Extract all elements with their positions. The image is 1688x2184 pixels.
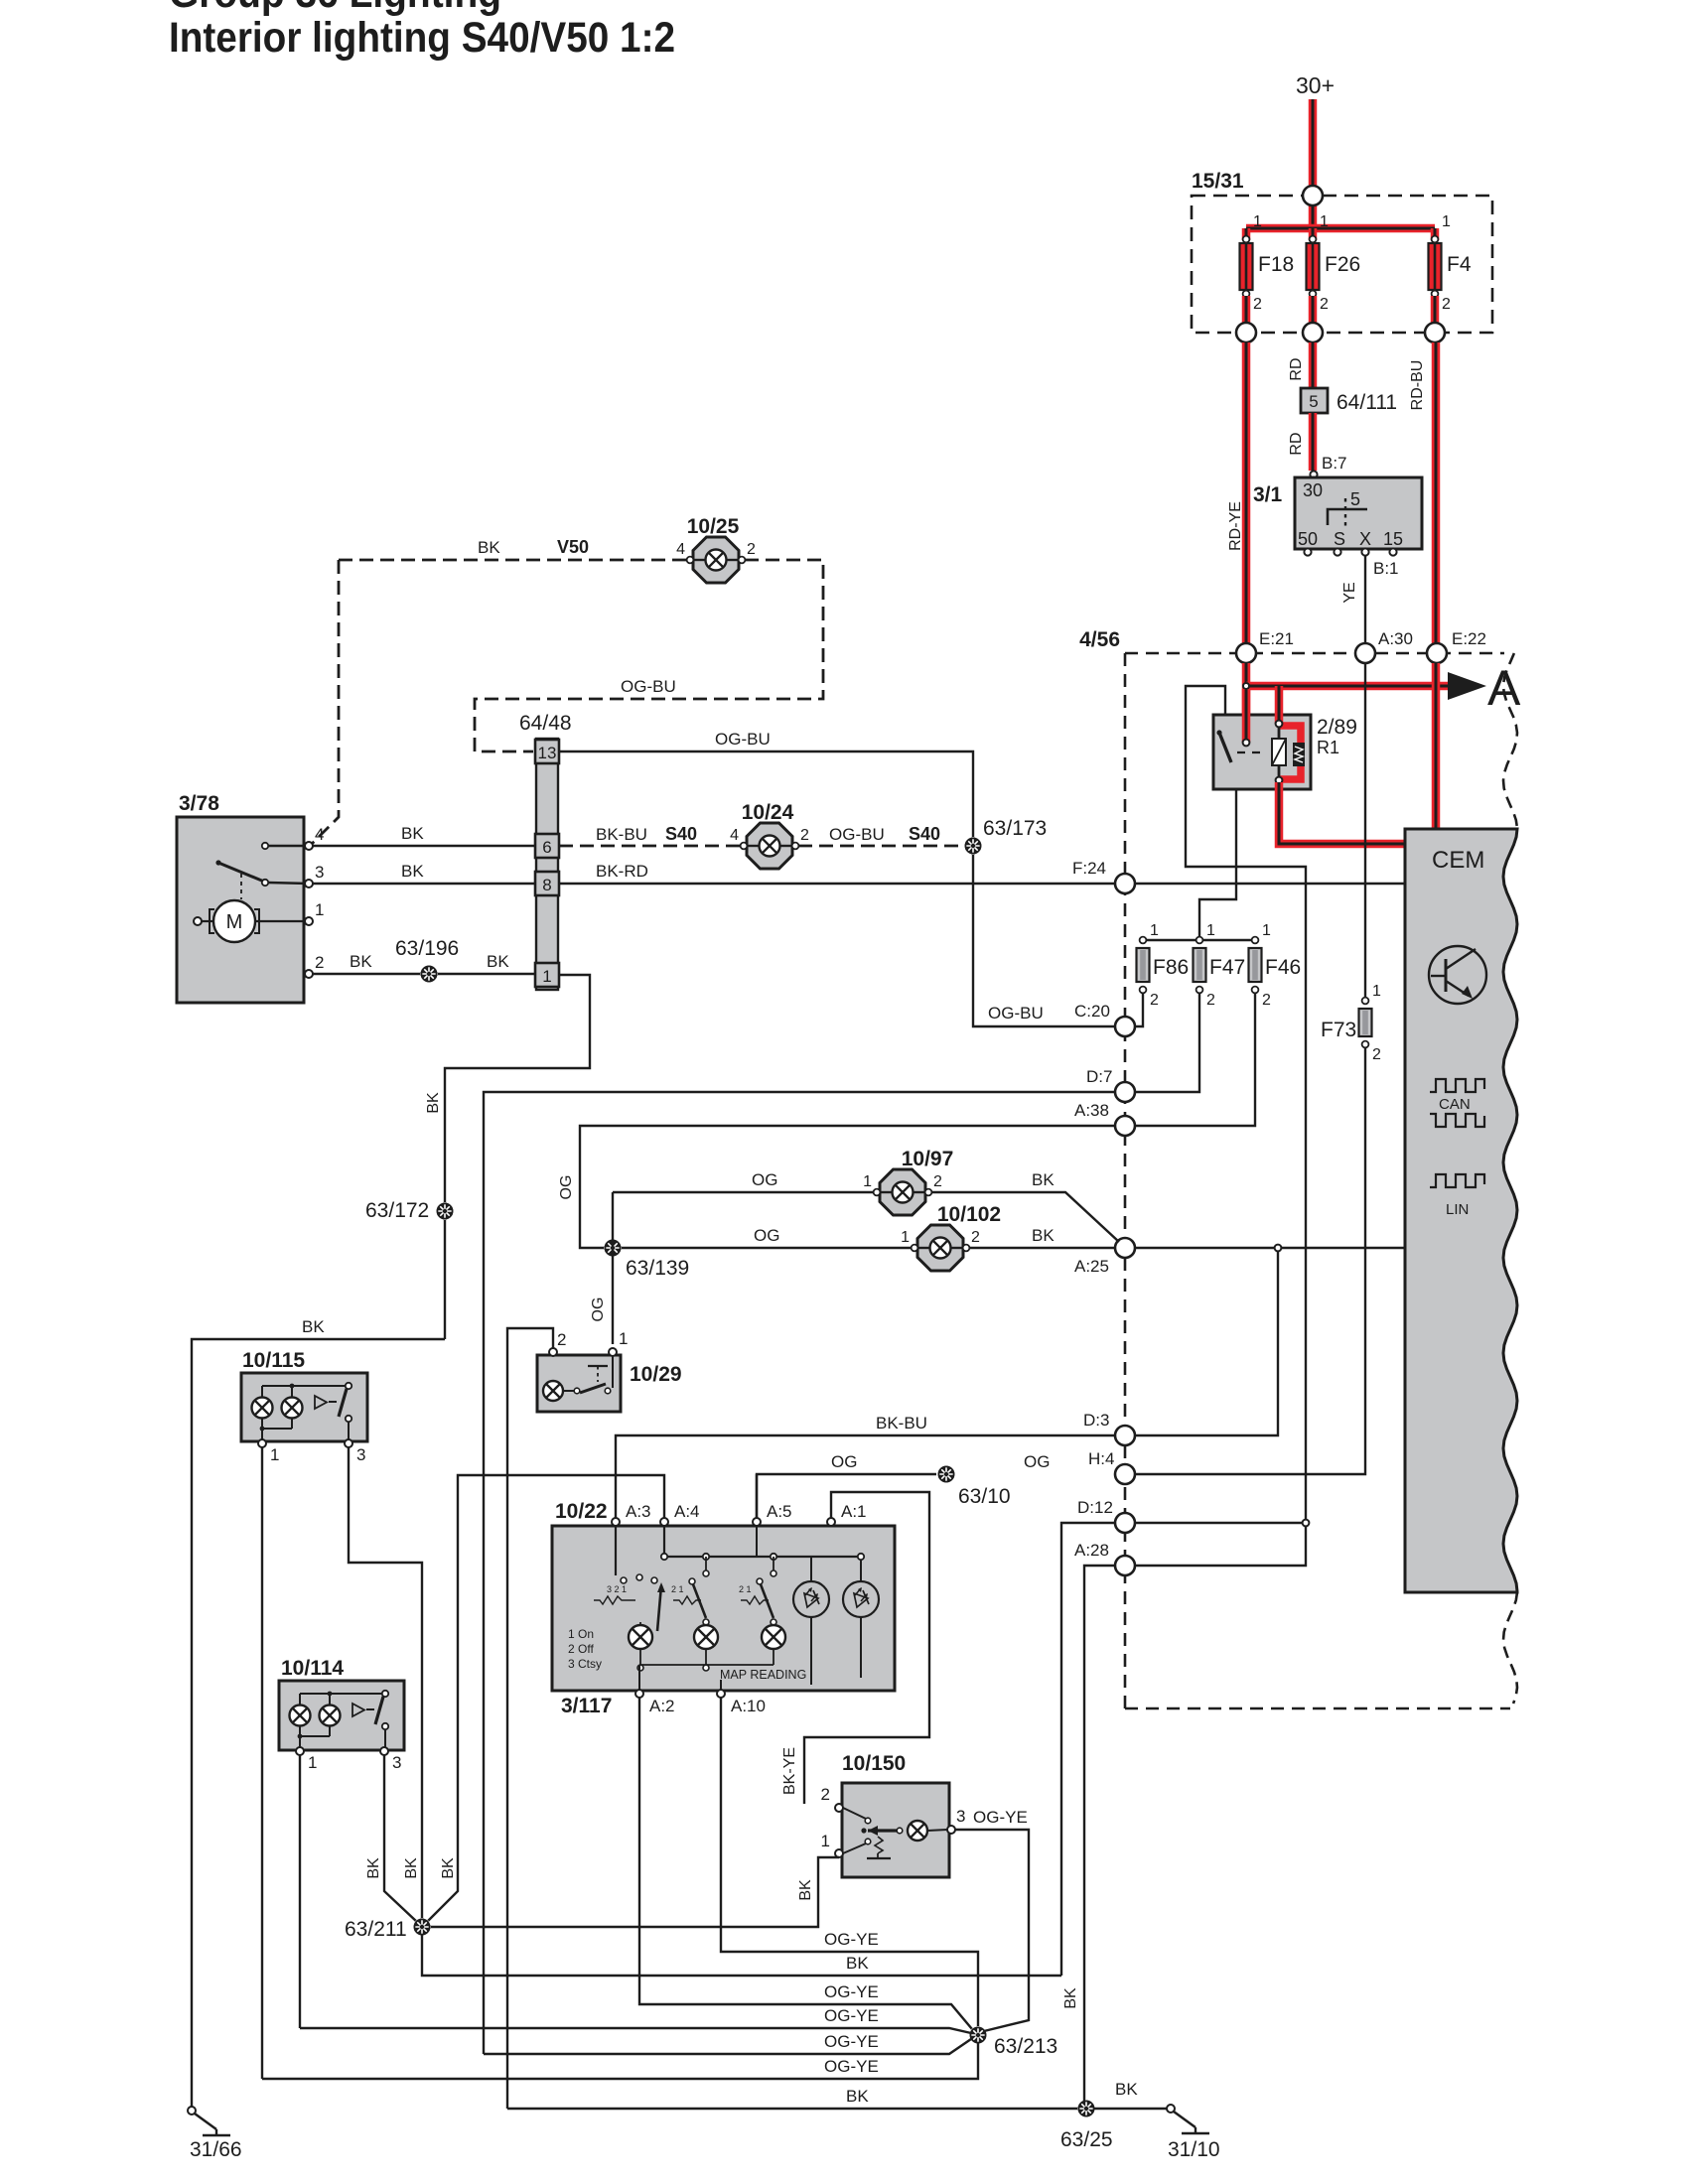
10/22 switch 2 bbox=[671, 1557, 709, 1625]
label YE bbox=[1341, 582, 1358, 603]
svg-text:3/117: 3/117 bbox=[561, 1695, 612, 1717]
svg-text:3/1: 3/1 bbox=[1253, 483, 1283, 506]
terminal A:5 bbox=[753, 1518, 761, 1526]
connector 64/48 pin 6 bbox=[535, 834, 559, 858]
node 30+ label bbox=[1296, 72, 1335, 98]
connector 64/48 pin 8 bbox=[535, 872, 559, 895]
terminal tap on D:12 wire bbox=[1303, 1520, 1310, 1527]
svg-text:B:1: B:1 bbox=[1373, 559, 1399, 578]
label BK bottom right bbox=[1115, 2080, 1138, 2099]
switch unit 10/150 box bbox=[842, 1752, 949, 1877]
splice 63/213 bbox=[969, 2026, 1057, 2058]
terminal 10/115 pin1 bbox=[258, 1439, 266, 1447]
terminal 3/1 pin S bbox=[1334, 548, 1340, 555]
wire D:12 left to BK riser bbox=[1061, 1523, 1115, 1976]
ignition switch symbol bbox=[1328, 489, 1367, 526]
wire A:28 left down to 63/25 bbox=[1084, 1566, 1115, 2109]
svg-text:BK: BK bbox=[401, 824, 424, 843]
connector C:20 bbox=[1074, 1002, 1135, 1036]
arrow A bbox=[1448, 660, 1521, 716]
label OG h4 right bbox=[1024, 1452, 1050, 1471]
connector D:3 bbox=[1083, 1411, 1135, 1445]
svg-text:1: 1 bbox=[315, 900, 324, 919]
svg-text:30+: 30+ bbox=[1296, 72, 1335, 98]
wire 10/115 pin1 down bbox=[261, 1447, 263, 2079]
wire 10/114 pin1 down bbox=[299, 1755, 301, 2028]
wire D:7 long left bbox=[484, 1092, 1115, 2054]
terminal tap on A:25 wire bbox=[1275, 1245, 1282, 1252]
wire A:10 down bbox=[721, 1698, 978, 2026]
splice 63/172 bbox=[365, 1199, 454, 1222]
svg-text:2: 2 bbox=[1253, 296, 1262, 313]
svg-text:63/172: 63/172 bbox=[365, 1199, 429, 1222]
wire BK to 31/10 bbox=[1094, 2108, 1167, 2110]
wire pin1 right down to 63/172 bbox=[445, 975, 590, 1339]
label BK 63/172 bbox=[425, 1092, 442, 1114]
terminal 10/150 pin1 bbox=[835, 1849, 843, 1857]
svg-text:D:12: D:12 bbox=[1077, 1498, 1113, 1517]
svg-text:BK-RD: BK-RD bbox=[596, 862, 648, 881]
connector H:4 bbox=[1088, 1449, 1135, 1484]
label A:1 bbox=[841, 1502, 867, 1521]
svg-text:2: 2 bbox=[1442, 296, 1451, 313]
terminal B:7 bbox=[1310, 454, 1346, 478]
svg-text:3 Ctsy: 3 Ctsy bbox=[568, 1657, 602, 1671]
label 10/114 pin3 bbox=[392, 1753, 401, 1772]
svg-text:2: 2 bbox=[933, 1173, 942, 1190]
relay switch terminal bbox=[1243, 740, 1250, 747]
svg-text:2 1: 2 1 bbox=[671, 1584, 684, 1594]
svg-text:RD-YE: RD-YE bbox=[1227, 501, 1244, 551]
connector F:24 bbox=[1072, 859, 1135, 893]
svg-text:10/29: 10/29 bbox=[630, 1363, 682, 1386]
svg-text:10/24: 10/24 bbox=[742, 801, 794, 824]
svg-text:31/66: 31/66 bbox=[190, 2138, 242, 2161]
wire A:1 loop to 10/150 bbox=[804, 1492, 929, 1804]
CEM transistor symbol bbox=[1429, 946, 1486, 1004]
svg-text:3/78: 3/78 bbox=[179, 792, 219, 815]
wire OG-YE 10/115 pin1 row bbox=[262, 2043, 978, 2079]
terminal 3/78 pin3 bbox=[305, 880, 313, 887]
splice 63/139 bbox=[604, 1239, 689, 1280]
terminal 10/150 pin2 bbox=[835, 1804, 843, 1812]
svg-text:1: 1 bbox=[542, 967, 551, 986]
svg-text:3: 3 bbox=[356, 1445, 365, 1464]
svg-text:LIN: LIN bbox=[1446, 1201, 1469, 1218]
10/22 lamp 1 bbox=[629, 1622, 652, 1671]
svg-text:C:20: C:20 bbox=[1074, 1002, 1110, 1021]
label BK 3/78 pin4 bbox=[401, 824, 424, 843]
svg-text:63/213: 63/213 bbox=[994, 2035, 1057, 2058]
svg-text:2: 2 bbox=[557, 1330, 566, 1349]
relay 2/89 box bbox=[1213, 715, 1357, 789]
svg-text:15/31: 15/31 bbox=[1192, 170, 1244, 193]
wire V50 dashed drop to pin4 bbox=[312, 560, 339, 844]
svg-text:BK: BK bbox=[478, 538, 500, 557]
svg-text:F86: F86 bbox=[1153, 956, 1189, 979]
svg-text:OG-YE: OG-YE bbox=[824, 2006, 879, 2025]
label BK 63/211 b bbox=[403, 1857, 420, 1879]
svg-text:31/10: 31/10 bbox=[1168, 2138, 1220, 2161]
svg-text:5: 5 bbox=[1350, 489, 1360, 509]
label BK 63/196 right bbox=[487, 952, 509, 971]
label 10/150 pin1 bbox=[821, 1832, 830, 1850]
label 10/115 pin1 bbox=[270, 1445, 279, 1464]
svg-text:3: 3 bbox=[956, 1807, 965, 1826]
fuse F73 bbox=[1321, 983, 1381, 1063]
svg-text:2 1: 2 1 bbox=[739, 1584, 752, 1594]
label A:10 bbox=[731, 1697, 766, 1715]
wire F:24 to CEM bbox=[1135, 883, 1405, 885]
fusebox 15/31 dashed outline bbox=[1192, 170, 1492, 333]
svg-text:BK: BK bbox=[365, 1857, 382, 1879]
svg-text:63/25: 63/25 bbox=[1060, 2128, 1113, 2151]
label 10/29 pin2 bbox=[557, 1330, 566, 1349]
wire OG-YE 10/150 pin3 bbox=[955, 1830, 1029, 2031]
switch in 3/78 bbox=[215, 843, 268, 899]
label BK 10/150 pin1 bbox=[797, 1879, 814, 1901]
svg-text:13: 13 bbox=[538, 744, 557, 762]
svg-text:BK: BK bbox=[487, 952, 509, 971]
motor M symbol bbox=[202, 900, 309, 942]
svg-text:F4: F4 bbox=[1447, 253, 1472, 276]
wire BK 10/150 pin1 bbox=[429, 1857, 839, 1927]
10/115 diode symbol bbox=[315, 1396, 337, 1409]
connector 64/48 pin 1 bbox=[535, 963, 559, 987]
label MAP READING bbox=[720, 1668, 806, 1682]
wire RD F26 to 64/111 bbox=[1309, 342, 1318, 389]
svg-text:2/89: 2/89 bbox=[1317, 716, 1357, 739]
fuse F4 bbox=[1429, 213, 1472, 313]
label V50 bbox=[557, 537, 589, 557]
label OG 10/102 bbox=[754, 1226, 779, 1245]
fuse F47 bbox=[1194, 922, 1246, 1009]
wire OG-BU riser bbox=[559, 751, 1115, 1026]
svg-text:OG-YE: OG-YE bbox=[824, 2057, 879, 2076]
label OG-BU s40 bbox=[829, 825, 885, 844]
svg-text:10/102: 10/102 bbox=[937, 1203, 1001, 1226]
10/22 LED 1 bbox=[793, 1557, 829, 1685]
wire D:3 branch bbox=[1135, 1252, 1278, 1435]
svg-text:H:4: H:4 bbox=[1088, 1449, 1114, 1468]
svg-text:A:3: A:3 bbox=[626, 1502, 651, 1521]
svg-text:2: 2 bbox=[315, 953, 324, 972]
lamp 10/102 bbox=[901, 1203, 1001, 1271]
roof console 10/22 box bbox=[552, 1500, 895, 1691]
wire A:2 down bbox=[639, 1698, 972, 2029]
svg-text:2: 2 bbox=[800, 827, 809, 844]
lamp 10/25 courtesy V50 bbox=[676, 515, 756, 583]
title line 1 (cropped) bbox=[169, 0, 501, 17]
svg-text:1: 1 bbox=[270, 1445, 279, 1464]
terminal 3/78 pin4 bbox=[305, 842, 313, 850]
svg-text:63/139: 63/139 bbox=[626, 1257, 689, 1280]
svg-text:1: 1 bbox=[1206, 922, 1215, 939]
wire OG A5 to 63/10 segment bbox=[756, 1473, 758, 1475]
svg-text:4: 4 bbox=[315, 825, 324, 844]
connector A:28 bbox=[1074, 1541, 1135, 1575]
label A:3 bbox=[626, 1502, 651, 1521]
splice 63/25 bbox=[1060, 2100, 1113, 2151]
connector 30+ into 15/31 bbox=[1303, 186, 1323, 205]
relay switch lever bbox=[1216, 730, 1267, 762]
svg-text:4: 4 bbox=[676, 541, 685, 558]
label A:5 bbox=[767, 1502, 792, 1521]
connector 15/31 out left bbox=[1236, 323, 1256, 342]
svg-text:S40: S40 bbox=[665, 824, 697, 844]
wire BK pin2 to 64/48 pin1 bbox=[313, 973, 535, 975]
svg-text:2: 2 bbox=[971, 1229, 980, 1246]
wire A:38 to 10/102 row bbox=[580, 1126, 1115, 1248]
label pin2 bbox=[315, 953, 324, 972]
10/22 legend text bbox=[568, 1627, 602, 1671]
motor terminal left bbox=[194, 917, 202, 925]
svg-text:64/111: 64/111 bbox=[1336, 391, 1397, 414]
label OG-YE a2 bbox=[824, 1982, 879, 2001]
fuse F46 bbox=[1249, 922, 1302, 1009]
CEM CAN symbol bbox=[1430, 1079, 1484, 1127]
wire C:20 to F86 bbox=[1135, 993, 1143, 1026]
svg-text:OG: OG bbox=[831, 1452, 857, 1471]
label BK 63/211 a bbox=[365, 1857, 382, 1879]
svg-text:OG-BU: OG-BU bbox=[829, 825, 885, 844]
label pin1 bbox=[315, 900, 324, 919]
svg-text:OG: OG bbox=[590, 1297, 607, 1322]
svg-text:OG-YE: OG-YE bbox=[824, 2032, 879, 2051]
CEM LIN symbol bbox=[1430, 1174, 1484, 1218]
svg-text:2: 2 bbox=[1372, 1046, 1381, 1063]
label BK-YE bbox=[781, 1747, 798, 1795]
label OG-YE pin3 bbox=[973, 1808, 1028, 1827]
svg-text:CEM: CEM bbox=[1432, 847, 1484, 874]
svg-text:1: 1 bbox=[1320, 213, 1329, 230]
svg-text:BK: BK bbox=[1062, 1987, 1079, 2009]
wire 63/211 down BK to D:12 riser bbox=[422, 1934, 1061, 1976]
wire A:5 stub to bus bbox=[756, 1526, 758, 1557]
fuse F26 bbox=[1307, 213, 1361, 313]
wire 10/115 pin3 down bbox=[349, 1447, 422, 1919]
svg-text:E:21: E:21 bbox=[1259, 629, 1294, 648]
wire F4 top bbox=[1431, 228, 1440, 240]
resistor R1 bbox=[1293, 743, 1305, 766]
svg-text:1: 1 bbox=[821, 1832, 830, 1850]
svg-text:2: 2 bbox=[821, 1785, 830, 1804]
label RD upper bbox=[1288, 357, 1305, 380]
svg-text:63/10: 63/10 bbox=[958, 1485, 1011, 1508]
wire BK bottom bus bbox=[507, 2108, 1078, 2110]
svg-text:1: 1 bbox=[1150, 922, 1159, 939]
ignition switch 3/1 box bbox=[1253, 478, 1422, 549]
svg-text:OG-BU: OG-BU bbox=[621, 677, 676, 696]
wire OG-YE 10/114 pin1 row bbox=[300, 2028, 971, 2033]
wire RD 64/111 to B:7 bbox=[1309, 413, 1318, 471]
label BK left drop bbox=[302, 1317, 325, 1336]
label BK a28 bbox=[1062, 1987, 1079, 2009]
label BK v50 bbox=[478, 538, 500, 557]
svg-text:RD: RD bbox=[1288, 432, 1305, 455]
wire BK-BU D:3 to A:3 bbox=[616, 1435, 1115, 1518]
label RD-YE bbox=[1227, 501, 1244, 551]
terminal 3/1 pin 15 bbox=[1389, 548, 1396, 555]
svg-text:BK: BK bbox=[440, 1857, 457, 1879]
svg-text:63/173: 63/173 bbox=[983, 817, 1047, 840]
wire F47 pin2 to D:7 bbox=[1135, 993, 1199, 1092]
10/22 switch 1 bbox=[594, 1526, 665, 1631]
svg-text:15: 15 bbox=[1383, 529, 1403, 549]
wire F18 pin2 down bbox=[1242, 296, 1251, 333]
label BK-RD bbox=[596, 862, 648, 881]
switch lever 10/29 bbox=[580, 1356, 613, 1394]
label OG-YE d7 bbox=[824, 2032, 879, 2051]
wire 10/29 pin2 up-left down bbox=[507, 1328, 553, 2109]
label S40 left bbox=[665, 824, 697, 844]
label OG-YE 114 bbox=[824, 2006, 879, 2025]
svg-text:E:22: E:22 bbox=[1452, 629, 1486, 648]
label BK 10/97 bbox=[1032, 1170, 1055, 1189]
svg-text:10/22: 10/22 bbox=[555, 1500, 608, 1523]
svg-text:1: 1 bbox=[863, 1173, 872, 1190]
wire relay switch common staple bbox=[1186, 686, 1306, 1519]
svg-text:MAP READING: MAP READING bbox=[720, 1668, 806, 1682]
label BK-BU s40 bbox=[596, 825, 647, 844]
connector 64/111 bbox=[1301, 388, 1397, 414]
svg-text:OG-YE: OG-YE bbox=[824, 1930, 879, 1949]
svg-text:2: 2 bbox=[1262, 992, 1271, 1009]
svg-text:BK: BK bbox=[350, 952, 372, 971]
label OG 10/29 riser bbox=[590, 1297, 607, 1322]
svg-text:1 On: 1 On bbox=[568, 1627, 594, 1641]
svg-text:4/56: 4/56 bbox=[1079, 628, 1120, 651]
terminal A:2 bbox=[635, 1690, 643, 1698]
wire BK pin4 to 64/48 pin6 bbox=[313, 845, 535, 847]
wire A:4 loop bbox=[427, 1475, 664, 1922]
splice 63/173 bbox=[964, 817, 1047, 855]
lamp unit 10/114 box bbox=[279, 1657, 404, 1750]
wire V50 dashed right loop OG-BU bbox=[475, 560, 823, 751]
wire A:25 to CEM bbox=[1135, 1247, 1405, 1249]
svg-text:F73: F73 bbox=[1321, 1019, 1356, 1041]
svg-text:OG-BU: OG-BU bbox=[715, 730, 771, 749]
svg-text:1: 1 bbox=[1442, 213, 1451, 230]
svg-text:2: 2 bbox=[747, 541, 756, 558]
label OG-BU pin13 bbox=[715, 730, 771, 749]
label RD-BU bbox=[1409, 360, 1426, 411]
label RD lower bbox=[1288, 432, 1305, 455]
svg-text:CAN: CAN bbox=[1439, 1096, 1471, 1113]
svg-text:2: 2 bbox=[1206, 992, 1215, 1009]
label 10/150 pin2 bbox=[821, 1785, 830, 1804]
svg-text:OG-YE: OG-YE bbox=[973, 1808, 1028, 1827]
lamp 10/24 courtesy S40 bbox=[730, 801, 809, 869]
svg-text:D:7: D:7 bbox=[1086, 1067, 1112, 1086]
terminal A:4 bbox=[660, 1518, 668, 1526]
svg-text:50: 50 bbox=[1298, 529, 1318, 549]
label OG a38 riser bbox=[558, 1175, 575, 1200]
wire fuse bus pins1 bbox=[1143, 939, 1255, 941]
label 10/115 pin3 bbox=[356, 1445, 365, 1464]
wire A:5 riser bbox=[756, 1474, 758, 1518]
wire 3/78 sw to pin3 bbox=[268, 883, 309, 884]
svg-text:BK: BK bbox=[403, 1857, 420, 1879]
ground 31/10 bbox=[1167, 2105, 1220, 2161]
svg-text:63/196: 63/196 bbox=[395, 937, 459, 960]
wire relay return to CEM bbox=[1279, 782, 1405, 844]
splice 63/211 bbox=[345, 1918, 431, 1941]
wire E:22 down to CEM bbox=[1432, 663, 1441, 829]
wire D:12 right bbox=[1135, 1522, 1302, 1524]
svg-text:6: 6 bbox=[542, 838, 551, 857]
wire OG H:4 to A:5 bbox=[757, 1474, 936, 1518]
wire OG-YE D:7 row bbox=[484, 2039, 971, 2054]
label BK d12 row bbox=[846, 1954, 869, 1973]
wire V50 dashed left segment bbox=[339, 559, 687, 562]
svg-text:OG-YE: OG-YE bbox=[824, 1982, 879, 2001]
svg-text:10/25: 10/25 bbox=[687, 515, 740, 538]
svg-text:10/97: 10/97 bbox=[902, 1148, 954, 1170]
wire BK pin3 to 64/48 pin8 bbox=[313, 883, 535, 885]
switch unit 10/29 box bbox=[537, 1355, 682, 1412]
connector A:38 bbox=[1074, 1101, 1135, 1136]
lamp in 10/29 bbox=[543, 1381, 580, 1401]
10/114 lamps bbox=[290, 1692, 386, 1747]
10/114 diode symbol bbox=[352, 1704, 374, 1716]
svg-text:2 Off: 2 Off bbox=[568, 1642, 594, 1656]
svg-text:F18: F18 bbox=[1258, 253, 1294, 276]
label BK 10/102 bbox=[1032, 1226, 1055, 1245]
wire 10/114 pin3 down bbox=[384, 1755, 417, 1922]
connector E:22 bbox=[1427, 629, 1486, 663]
svg-text:1: 1 bbox=[1253, 213, 1262, 230]
label OG-BU c20 bbox=[988, 1004, 1044, 1023]
svg-text:3: 3 bbox=[392, 1753, 401, 1772]
label pin4 bbox=[315, 825, 324, 844]
svg-text:1: 1 bbox=[619, 1329, 628, 1348]
svg-text:2: 2 bbox=[1320, 296, 1329, 313]
svg-text:A:10: A:10 bbox=[731, 1697, 766, 1715]
svg-text:B:7: B:7 bbox=[1322, 454, 1347, 473]
wire F4 pin2 down bbox=[1431, 296, 1440, 333]
relay coil terminal bottom bbox=[1276, 777, 1283, 784]
terminal A:3 bbox=[612, 1518, 620, 1526]
wire 3/78 to pin4 bbox=[268, 845, 309, 847]
connector D:12 bbox=[1077, 1498, 1135, 1533]
svg-text:BK-BU: BK-BU bbox=[596, 825, 647, 844]
connector A:30 bbox=[1355, 629, 1413, 663]
wire BK-RD pin8 to F:24 bbox=[559, 883, 1115, 885]
label OG h4 left bbox=[831, 1452, 857, 1471]
svg-text:4: 4 bbox=[730, 827, 739, 844]
terminal 10/114 pin1 bbox=[296, 1747, 304, 1755]
svg-text:A:4: A:4 bbox=[674, 1502, 700, 1521]
terminal 10/115 pin3 bbox=[345, 1439, 352, 1447]
svg-text:OG-BU: OG-BU bbox=[988, 1004, 1044, 1023]
label BK bottom left bbox=[846, 2087, 869, 2106]
wire F26 pin2 down bbox=[1309, 296, 1318, 333]
10/22 lamp 2 bbox=[694, 1625, 718, 1671]
wire relay coil feed bbox=[1275, 686, 1284, 724]
svg-text:30: 30 bbox=[1303, 480, 1323, 500]
svg-text:BK: BK bbox=[1032, 1170, 1055, 1189]
svg-text:A:28: A:28 bbox=[1074, 1541, 1109, 1560]
relay coil terminal top bbox=[1276, 721, 1283, 728]
svg-text:R1: R1 bbox=[1317, 738, 1339, 757]
10/22 internal bus bbox=[661, 1526, 864, 1560]
connector 15/31 out right bbox=[1425, 323, 1445, 342]
lamp 10/97 bbox=[863, 1148, 953, 1215]
svg-text:BK-BU: BK-BU bbox=[876, 1414, 927, 1433]
lamp unit 10/115 box bbox=[241, 1349, 367, 1441]
connector 64/48 pin 13 bbox=[535, 740, 559, 763]
